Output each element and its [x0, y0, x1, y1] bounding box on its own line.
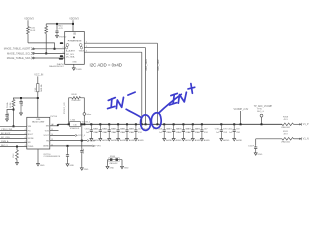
wire U30 VOUT sense — [50, 134, 75, 136]
svg-text:AGND: AGND — [223, 139, 230, 142]
wire U5 IN+ horizontal — [84, 42, 157, 44]
junction rail / C_u5 — [56, 23, 58, 25]
wire BK_BOOT from left edge — [0, 134, 27, 136]
svg-text:I2C_CFG: I2C_CFG — [1, 137, 10, 139]
wire loop left vertical — [69, 98, 72, 125]
svg-text:100nF: 100nF — [8, 112, 10, 119]
svg-text:MODE: MODE — [28, 138, 34, 140]
svg-text:AGND: AGND — [185, 139, 192, 142]
fuse F30 — [37, 84, 39, 92]
inductor L30 on bus — [70, 122, 81, 127]
junction bus / C302 — [108, 123, 110, 125]
node test point TP on VOUT — [83, 113, 86, 116]
svg-text:10.0K: 10.0K — [30, 30, 36, 32]
svg-text:MXL3A: MXL3A — [40, 84, 43, 92]
annotation IN- letter N — [116, 97, 123, 108]
ground below R340 left — [106, 165, 109, 168]
svg-text:VDD3V3: VDD3V3 — [69, 17, 79, 20]
junction R_seq on SEQ_3 wire — [16, 146, 18, 148]
wire VDD3V3 to R pullup — [27, 20, 29, 26]
junction SCL pullup — [45, 52, 47, 54]
wire MAGE_TABLE_ALERT to U5 — [35, 48, 64, 50]
svg-text:AGND: AGND — [166, 139, 173, 142]
svg-text:LPAD0402: LPAD0402 — [281, 140, 290, 143]
svg-text:VCOM_2: VCOM_2 — [82, 121, 91, 123]
ground below C_en — [6, 118, 9, 121]
wire branch to C_en — [7, 110, 14, 113]
junction SW / bus — [57, 124, 59, 126]
svg-text:AGND: AGND — [43, 145, 49, 148]
junction R_en / VIN wire — [13, 125, 15, 127]
wire U5 VBUS horizontal — [84, 51, 142, 53]
capacitor C_u5 100nF — [55, 29, 58, 34]
port chevron MAGE_TABLE_SCL — [31, 52, 35, 54]
junction TVP wire / C_out2 — [67, 145, 69, 147]
svg-text:100nF: 100nF — [22, 100, 24, 107]
svg-text:LPAD0402: LPAD0402 — [72, 99, 81, 102]
ground below C_v1n — [254, 152, 257, 155]
wire fuse to U30 VIN top pin — [37, 92, 39, 118]
svg-text:4: 4 — [63, 56, 64, 58]
resistor R_alert pullup — [27, 27, 30, 34]
wire U30 AGND / TVP — [50, 145, 93, 147]
wire MAGE_TABLE_SDA to U5 — [35, 57, 64, 59]
ground below C_u5 — [56, 34, 59, 37]
svg-text:POWER MON: POWER MON — [68, 41, 82, 43]
junction R_en branch — [13, 109, 15, 111]
svg-text:TP_ADC_VCOMP: TP_ADC_VCOMP — [254, 105, 273, 108]
junction TP30 / bus — [261, 123, 263, 125]
ground below C306 — [163, 138, 166, 141]
svg-text:MAGMON2007: MAGMON2007 — [49, 65, 64, 68]
svg-text:LPAD0402: LPAD0402 — [109, 162, 117, 165]
svg-text:16: 16 — [52, 124, 54, 126]
svg-text:VSGND: VSGND — [59, 37, 67, 39]
svg-text:AGND: AGND — [93, 139, 100, 142]
port chevron MAGE_TABLE_ALERT — [31, 48, 35, 50]
annotation leader line from IN- to left loop — [126, 109, 141, 118]
svg-text:GND: GND — [109, 168, 114, 170]
pin name blob SDA lower — [59, 58, 63, 60]
resistor network R340 (series beads) — [108, 158, 123, 162]
svg-text:VCOMP_2.4V: VCOMP_2.4V — [234, 109, 249, 111]
wire C_v1n to ground — [255, 150, 257, 152]
wire I2C_CFG from left edge — [0, 138, 27, 140]
svg-text:0ohm: 0ohm — [86, 114, 91, 116]
wire U30 SW pin stub — [50, 125, 58, 127]
ground below R340 right — [121, 165, 124, 168]
svg-text:LPAD0402: LPAD0402 — [281, 126, 290, 129]
test point TP30 symbol — [260, 114, 263, 117]
wire rail to R_scl — [45, 24, 47, 26]
svg-text:GND: GND — [69, 165, 74, 167]
pin name blob SDA upper — [60, 55, 63, 57]
junction loop right / bus — [83, 123, 85, 125]
wire VCOMP label stub — [240, 111, 242, 124]
svg-text:AGND: AGND — [102, 139, 109, 142]
svg-text:GND: GND — [124, 168, 129, 170]
wire loop right vertical upper — [81, 98, 85, 113]
svg-text:I2C_SDA: I2C_SDA — [66, 56, 75, 59]
port flag V1_N — [299, 138, 301, 140]
svg-text:PV1V0: PV1V0 — [51, 116, 58, 118]
ground below C301 — [99, 138, 102, 141]
port flag VREF — [87, 140, 89, 142]
annotation IN- minus sign — [128, 92, 135, 95]
junction bus / C308 — [182, 123, 184, 125]
svg-text:GND: GND — [258, 154, 263, 156]
junction bus / C305 — [135, 123, 137, 125]
wire R340 left lead — [107, 160, 109, 166]
port chevron MAGE_TABLE_SDA — [31, 57, 35, 59]
svg-text:CONVERGENCE: CONVERGENCE — [44, 156, 61, 158]
junction loop left / bus — [68, 123, 70, 125]
IC U30 BUCK CONV body — [27, 117, 50, 149]
svg-text:VBUS: VBUS — [79, 50, 85, 52]
ground below C311 — [220, 138, 223, 141]
junction bus / C310 — [201, 123, 203, 125]
ground below C_out2 — [66, 163, 69, 166]
wire V1_N branch horizontal — [256, 138, 282, 140]
wire U5 IN- horizontal — [84, 47, 145, 49]
svg-text:AGND: AGND — [195, 139, 202, 142]
capacitor C_v1n — [254, 145, 257, 150]
wire R_en to VIN net — [13, 107, 15, 126]
svg-text:2: 2 — [63, 47, 64, 49]
wire main VOUT bus — [58, 123, 282, 125]
junction bus / C306 — [163, 123, 165, 125]
svg-text:MAGE_TABLE_ALERT: MAGE_TABLE_ALERT — [4, 47, 31, 51]
junction bus / C_out1 — [81, 123, 83, 125]
capacitor C312 — [233, 124, 236, 137]
svg-text:PGND: PGND — [76, 69, 83, 71]
svg-text:CTRL3_3V3: CTRL3_3V3 — [1, 129, 13, 131]
port flag V1_P — [299, 123, 301, 125]
svg-text:A_ALERT: A_ALERT — [66, 49, 76, 52]
annotation IN+ plus sign — [191, 84, 193, 94]
capacitor C307 — [172, 124, 175, 137]
svg-text:BOOT: BOOT — [28, 134, 34, 136]
annotation IN+ letter I — [171, 93, 177, 95]
junction bus / C304 — [126, 123, 128, 125]
wire R311 to port V1_N — [294, 138, 300, 140]
junction VREF wire crossing — [81, 140, 83, 142]
ground below C_in — [20, 112, 23, 115]
ground below C304 — [126, 138, 129, 141]
svg-text:V1_N: V1_N — [303, 139, 309, 141]
resistor R_seq — [16, 150, 19, 160]
annotation IN- letter I — [108, 98, 115, 101]
ground below C305 — [134, 138, 137, 141]
wire U30 PGND stub — [37, 149, 39, 163]
wire to R_seq — [16, 147, 18, 151]
port flag TVP4 — [93, 145, 95, 147]
svg-text:AGND: AGND — [138, 139, 145, 142]
svg-text:SEQ_3: SEQ_3 — [1, 145, 8, 147]
svg-text:100nF: 100nF — [83, 148, 85, 154]
junction VCOMP stub / bus — [240, 123, 242, 125]
wire VCC_IN down — [37, 76, 39, 83]
svg-text:4: 4 — [25, 133, 26, 135]
svg-text:TU4A: TU4A — [6, 102, 9, 108]
wire R pullup down — [27, 34, 29, 43]
capacitor C301 — [99, 124, 102, 137]
ground below C302 — [108, 138, 111, 141]
ground below C307 — [172, 138, 175, 141]
svg-text:R340: R340 — [110, 156, 116, 158]
wire TP30 to bus — [261, 117, 263, 124]
junction bus / C309 — [192, 123, 194, 125]
svg-text:X5R: X5R — [138, 132, 142, 134]
wire U5 GND stub — [73, 64, 75, 67]
junction IN- / bus — [145, 123, 147, 125]
wire rail to C_u5 — [56, 24, 58, 29]
wire loop right vertical lower — [83, 115, 85, 124]
svg-text:ADC_VINP: ADC_VINP — [157, 59, 160, 71]
junction bus / C311 — [220, 123, 222, 125]
wire U30 VOS stub — [50, 130, 59, 132]
svg-text:X5R: X5R — [236, 132, 240, 134]
ground below C309 — [191, 138, 194, 141]
wire R308 to port V1_P — [294, 123, 300, 125]
wire VCC rail horizontal — [13, 97, 38, 99]
svg-text:I2C ADD = 0x4D: I2C ADD = 0x4D — [90, 62, 122, 67]
junction bus / C300 — [90, 123, 92, 125]
ground below C303 — [117, 138, 120, 141]
U5 internal sense symbols — [65, 44, 82, 49]
ground below C308 — [182, 138, 185, 141]
wire SEQ_3 from left edge — [0, 146, 27, 148]
annotation IN+ letter N — [178, 92, 186, 103]
svg-text:V1_P: V1_P — [303, 124, 309, 126]
svg-text:BUCK CONV: BUCK CONV — [32, 122, 45, 124]
wire VDD3V3 to U5 VDD pin — [72, 20, 74, 31]
svg-text:2: 2 — [86, 46, 87, 48]
svg-text:100nF: 100nF — [248, 146, 254, 148]
ground below C310 — [200, 138, 203, 141]
svg-text:AGND: AGND — [111, 139, 118, 142]
capacitor C304 — [125, 124, 128, 137]
junction bus / C307 — [173, 123, 175, 125]
junction bus / C301 — [99, 123, 101, 125]
wire CTRL3_3V3 from left edge — [0, 130, 27, 132]
svg-text:AGND: AGND — [236, 139, 243, 142]
junction VCC rail — [37, 97, 39, 99]
ground below R_seq — [16, 162, 19, 165]
svg-text:PWM_A: PWM_A — [1, 140, 9, 143]
U5 VDD pin marker — [73, 37, 75, 39]
capacitor C305 — [134, 124, 137, 137]
port flag COP_4 — [75, 134, 77, 136]
svg-text:1: 1 — [86, 42, 87, 44]
capacitor C_out2 — [66, 153, 69, 158]
resistor R308 49.9 — [282, 123, 294, 126]
wire rail corner down — [13, 98, 15, 100]
svg-text:GND: GND — [72, 62, 77, 64]
svg-text:SW: SW — [46, 126, 49, 128]
wire C_out2 to ground — [67, 158, 69, 163]
wire VIN net from left edge — [0, 125, 27, 127]
svg-text:GND: GND — [40, 165, 45, 167]
wire VDD rail horizontal — [46, 23, 73, 25]
capacitor C311 — [220, 124, 223, 137]
svg-text:R348: R348 — [72, 94, 78, 96]
op-amp U5 POWER MON IC body — [65, 32, 85, 65]
svg-text:TVP4: TVP4 — [95, 146, 101, 148]
svg-text:MAGE_TABLE_SDA: MAGE_TABLE_SDA — [7, 56, 31, 60]
svg-text:ADC_VINN: ADC_VINN — [145, 59, 148, 71]
junction bus / C303 — [117, 123, 119, 125]
svg-text:L304: L304 — [71, 120, 77, 122]
wire SW jog up — [57, 124, 59, 126]
resistor R_en 49.9K — [12, 100, 15, 108]
svg-text:VDD3V3: VDD3V3 — [24, 17, 34, 20]
capacitor C_in — [19, 98, 22, 112]
resistor R311 49.9 — [282, 138, 294, 141]
capacitor C_out1 — [80, 149, 83, 154]
capacitor C302 — [108, 124, 111, 137]
resistor R_scl pullup — [45, 26, 48, 33]
wire pullup over to ALERT net — [28, 43, 55, 49]
wire C_out1 to ground — [81, 154, 83, 167]
svg-text:49.9K: 49.9K — [10, 102, 12, 108]
svg-text:AGND: AGND — [120, 139, 127, 142]
svg-text:BK_BOOT: BK_BOOT — [1, 133, 11, 135]
svg-text:X5R: X5R — [223, 132, 227, 134]
svg-text:AGND: AGND — [176, 139, 183, 142]
wire R_scl down to SCL net — [45, 34, 47, 54]
wire VBUS vertical drop — [141, 52, 143, 124]
svg-text:4: 4 — [25, 141, 26, 143]
capacitor C310 — [200, 124, 203, 137]
svg-text:VCC_IN: VCC_IN — [34, 74, 43, 77]
wire R340 right lead — [121, 160, 123, 166]
ground below C312 — [233, 138, 236, 141]
ground below C_out1 — [80, 167, 83, 170]
svg-text:4: 4 — [25, 129, 26, 131]
wire MAGE_TABLE_SCL to U5 — [35, 52, 64, 54]
svg-text:PVOUT_1V0: PVOUT_1V0 — [64, 101, 66, 114]
svg-text:MAGE_TABLE_SCL: MAGE_TABLE_SCL — [7, 51, 31, 55]
svg-text:4: 4 — [25, 145, 26, 147]
svg-text:X5R: X5R — [204, 132, 208, 134]
svg-text:VOUT: VOUT — [44, 135, 50, 137]
svg-text:GND: GND — [84, 169, 89, 171]
capacitor C303 — [117, 124, 120, 137]
svg-text:3: 3 — [63, 52, 64, 54]
svg-text:SEQ_G: SEQ_G — [257, 111, 264, 113]
ground below U5 — [72, 67, 75, 70]
annotation left loop circle — [141, 115, 151, 131]
svg-text:STANDUS: STANDUS — [70, 127, 80, 130]
resistor R348 damping — [72, 97, 81, 100]
wire to C_out2 — [67, 146, 69, 153]
svg-text:AGND: AGND — [204, 139, 211, 142]
capacitor C306 — [163, 124, 166, 137]
junction rail / C_in — [20, 97, 22, 99]
junction VDD rail / U5 VDD — [72, 23, 74, 25]
annotation leader line from right loop to IN+ — [159, 94, 182, 113]
ground below C300 — [90, 138, 93, 141]
capacitor C_en — [5, 113, 8, 119]
svg-text:4: 4 — [25, 137, 26, 139]
wire V1_N corner down — [255, 139, 257, 145]
svg-text:AGND: AGND — [129, 139, 136, 142]
svg-text:4.7K: 4.7K — [59, 28, 64, 30]
junction IN+ / bus — [156, 123, 158, 125]
capacitor C300 — [90, 124, 93, 137]
wire IN+ vertical drop — [156, 43, 158, 124]
svg-text:I2C_SCL: I2C_SCL — [66, 54, 75, 56]
wire IN- vertical drop — [145, 48, 147, 125]
junction bus / C312 — [233, 123, 235, 125]
pin name blob ALERT — [60, 42, 63, 44]
wire bus down to C_out1 — [81, 124, 83, 148]
ground below U30 — [37, 163, 40, 166]
svg-text:3: 3 — [86, 51, 87, 53]
wire PWM_A from left edge — [0, 142, 27, 144]
annotation right loop circle — [151, 113, 161, 129]
junction ALERT pullup — [54, 48, 56, 50]
capacitor C309 — [191, 124, 194, 137]
svg-text:PGND: PGND — [28, 146, 34, 148]
wire R_seq to ground — [16, 160, 18, 162]
junction VBUS / bus — [141, 123, 143, 125]
wire U30 FB / VREF — [50, 140, 87, 142]
capacitor C308 — [182, 124, 185, 137]
